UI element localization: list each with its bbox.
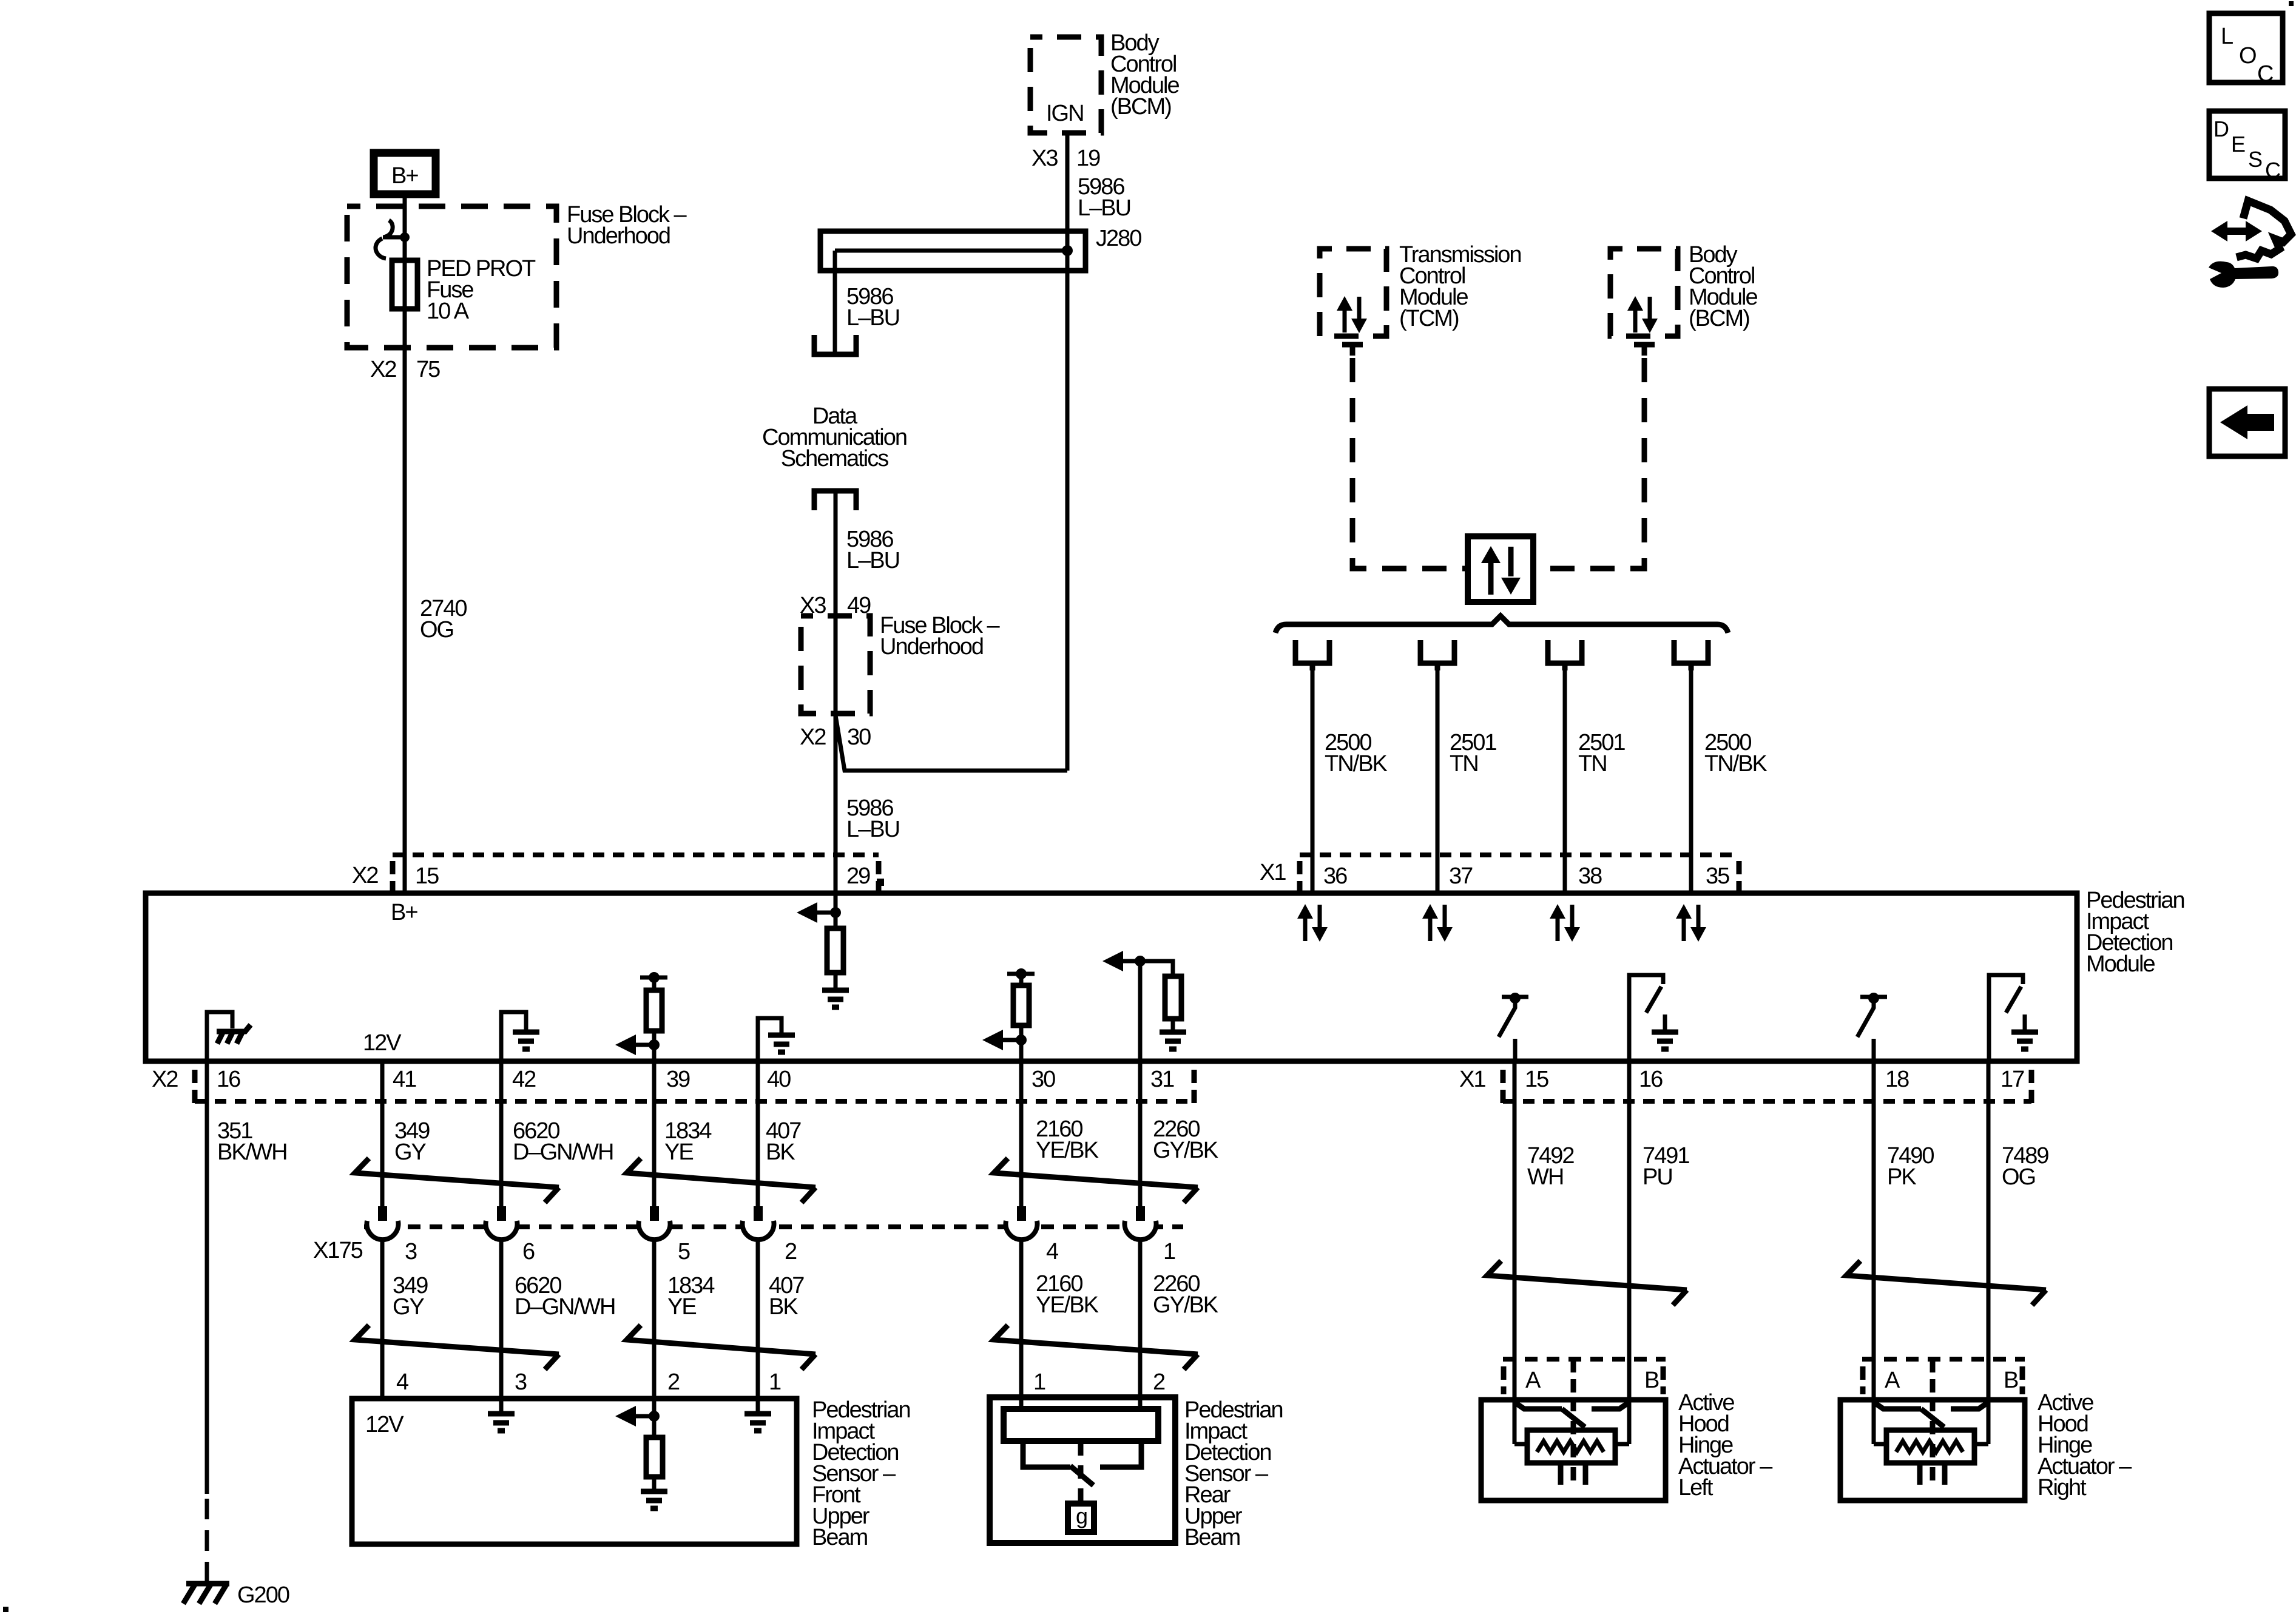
sensor front ground pin 1 — [745, 1399, 771, 1431]
wire B+ to fuse — [403, 198, 407, 262]
svg-text:E: E — [2231, 132, 2245, 157]
connector X1 bottom terminator — [1501, 1070, 1506, 1103]
wire fuse to module pin 15 — [403, 309, 407, 893]
wire label 349 GY lower — [393, 1273, 428, 1320]
actuator left name label — [1678, 1390, 1773, 1501]
svg-text:C: C — [2257, 61, 2273, 87]
svg-text:X175: X175 — [313, 1238, 363, 1263]
wire pin 30 to X175 pin 4 — [1019, 1061, 1024, 1207]
svg-text:B+: B+ — [391, 163, 418, 189]
wire label 5986 L-BU middle — [846, 527, 899, 573]
svg-text:1: 1 — [1163, 1239, 1175, 1264]
svg-text:4: 4 — [396, 1369, 409, 1395]
svg-text:2: 2 — [1153, 1369, 1165, 1395]
connector X1 bottom right terminator — [2029, 1070, 2034, 1103]
wire label 2500 TN/BK right — [1704, 730, 1768, 777]
BCM right name label — [1689, 242, 1757, 331]
svg-text:G200: G200 — [237, 1582, 289, 1608]
LOC hotspot icon — [2209, 13, 2283, 87]
svg-text:L–BU: L–BU — [846, 817, 899, 842]
module internal pullup at pin 30 — [982, 968, 1035, 1061]
connector X2 bottom right terminator — [1192, 1070, 1197, 1103]
module internal pulldown at pin 31 — [1102, 951, 1186, 1061]
svg-text:S: S — [2248, 147, 2262, 172]
actuator left connector left terminator — [1501, 1366, 1507, 1394]
back arrow icon — [2209, 389, 2285, 456]
connector X2 bottom dashed line — [195, 1099, 1194, 1104]
wire label 2500 TN/BK left — [1325, 730, 1388, 777]
DESC hotspot icon — [2209, 111, 2285, 183]
connector X2 top row right terminator — [876, 861, 882, 894]
module internal switch to ground at pin 16 — [1629, 975, 1678, 1061]
wire pin 39 to X175 pin 5 — [652, 1061, 657, 1207]
svg-text:OG: OG — [420, 617, 453, 643]
svg-text:D: D — [2213, 116, 2229, 141]
svg-text:4: 4 — [1046, 1239, 1059, 1264]
actuator left collar — [1514, 1402, 1629, 1427]
connector X2 bottom terminator — [192, 1070, 198, 1103]
wire pin 40 to X175 pin 2 — [756, 1061, 760, 1207]
wire label 5986 L-BU lower — [846, 795, 899, 842]
svg-text:15: 15 — [1525, 1067, 1548, 1092]
svg-text:Schematics: Schematics — [781, 446, 888, 471]
dashed serial data wire BCM to gateway — [1533, 358, 1644, 569]
brace over serial data pins — [1275, 616, 1728, 633]
splice pack J280 — [820, 226, 1141, 271]
connector X1 top row terminator — [1297, 861, 1303, 894]
svg-text:WH: WH — [1527, 1164, 1563, 1190]
svg-text:OG: OG — [2002, 1164, 2035, 1190]
svg-text:GY: GY — [393, 1294, 425, 1320]
svg-text:(BCM): (BCM) — [1110, 94, 1171, 120]
B+ power symbol — [374, 153, 436, 194]
active hood hinge actuator right box — [1840, 1400, 2025, 1501]
svg-text:40: 40 — [767, 1067, 791, 1092]
connector X2 top dashed line — [393, 852, 879, 857]
sensor front name label — [812, 1397, 910, 1550]
wire label 6620 D-GN/WH upper — [513, 1118, 613, 1165]
module internal switch at pin 15 — [1499, 993, 1528, 1061]
U connector pin 37 — [1420, 640, 1454, 670]
actuator left squib element — [1514, 1430, 1629, 1485]
svg-text:41: 41 — [393, 1067, 416, 1092]
rear sensor g-sensor box — [1068, 1504, 1094, 1532]
svg-text:16: 16 — [1639, 1067, 1663, 1092]
svg-text:Right: Right — [2038, 1475, 2087, 1501]
wire label 1834 YE lower — [667, 1273, 715, 1320]
wire label 5986 L-BU left — [846, 284, 899, 331]
tiny dot artifact — [877, 879, 884, 886]
fuse block underhood dashed box 2 — [801, 616, 870, 714]
svg-text:TN: TN — [1578, 751, 1607, 777]
actuator right connector dashed line — [1862, 1357, 2025, 1362]
svg-text:X1: X1 — [1260, 860, 1286, 885]
body control module (BCM) right dashed box — [1610, 249, 1678, 336]
svg-text:1: 1 — [769, 1369, 781, 1395]
wire pin 31 to X175 pin 1 — [1138, 1061, 1143, 1207]
fuse block label — [567, 202, 687, 249]
svg-text:YE: YE — [664, 1139, 693, 1165]
actuator right center dashed line — [1930, 1398, 1936, 1484]
pedestrian impact detection module label — [2086, 888, 2184, 977]
X175 terminal pin 1 — [1125, 1206, 1156, 1240]
actuator left connector right terminator — [1661, 1366, 1666, 1394]
TCM serial data arrows — [1337, 296, 1367, 333]
svg-text:L: L — [2221, 24, 2233, 49]
svg-text:18: 18 — [1885, 1067, 1909, 1092]
svg-text:29: 29 — [846, 863, 870, 889]
module internal pullup at pin 39 — [615, 972, 667, 1061]
J280 internal bus line — [835, 249, 1067, 253]
fuse clip bar — [383, 235, 405, 240]
connector X175 dashed line — [364, 1224, 1183, 1229]
connector X3 pin 49 labels — [800, 593, 871, 618]
wire pin 18 to actuator right A — [1872, 1061, 1876, 1444]
svg-text:36: 36 — [1323, 863, 1347, 889]
wire from bracket to fuse block — [834, 491, 838, 714]
BCM right serial data arrows — [1627, 296, 1658, 333]
actuator left center dashed line — [1571, 1398, 1576, 1484]
svg-text:BK/WH: BK/WH — [217, 1139, 287, 1165]
connector end view icon — [2209, 201, 2291, 288]
wire pin 17 to actuator right B — [1987, 1061, 1991, 1444]
wire serial data 2500 to pin 36 — [1311, 670, 1315, 893]
svg-text:A: A — [1885, 1368, 1900, 1393]
sensor front load pin 2 — [615, 1399, 667, 1508]
wire label 7489 OG — [2002, 1143, 2048, 1190]
module internal switch to ground at pin 17 — [1989, 975, 2038, 1061]
wire label 7490 PK — [1887, 1143, 1934, 1190]
rear sensor strip right leg — [1100, 1441, 1141, 1467]
svg-text:X3: X3 — [1032, 146, 1058, 171]
svg-text:15: 15 — [415, 863, 439, 889]
connector X3 pin 19 labels — [1032, 146, 1100, 171]
svg-text:10 A: 10 A — [427, 299, 470, 324]
svg-text:12V: 12V — [365, 1412, 404, 1437]
module serial data arrows pin 36 — [1297, 904, 1328, 942]
rear sensor switch blade — [1070, 1466, 1093, 1485]
wire label 2501 TN left — [1450, 730, 1496, 777]
active hood hinge actuator left box — [1481, 1400, 1666, 1501]
wire label 2260 GY/BK lower — [1153, 1271, 1218, 1318]
junction dot J280 — [1062, 245, 1073, 256]
connector X2 top row terminator — [390, 861, 396, 894]
wire X175 pin 6 to sensor pin 3 — [499, 1241, 504, 1399]
svg-text:16: 16 — [217, 1067, 240, 1092]
rear sensor element strip — [1004, 1409, 1158, 1441]
svg-text:Left: Left — [1678, 1475, 1714, 1501]
module serial data arrows pin 35 — [1676, 904, 1706, 942]
svg-text:YE/BK: YE/BK — [1036, 1138, 1099, 1163]
svg-text:3: 3 — [515, 1369, 527, 1395]
rear sensor name label — [1184, 1397, 1283, 1550]
svg-text:2: 2 — [785, 1239, 797, 1264]
dashed serial data wire TCM to gateway — [1352, 358, 1468, 569]
svg-text:17: 17 — [2001, 1067, 2024, 1092]
fuse PED PROT 10A — [392, 256, 536, 324]
svg-text:TN/BK: TN/BK — [1704, 751, 1768, 777]
wire pin 16 to actuator left B — [1627, 1061, 1632, 1444]
rear sensor dashed actuation line — [1078, 1442, 1084, 1502]
wire label 2160 YE/BK lower — [1036, 1271, 1099, 1318]
connector X2 pin 75 labels — [370, 357, 440, 382]
wire label 5986 L-BU upper — [1078, 174, 1130, 221]
svg-text:30: 30 — [847, 724, 871, 750]
svg-text:J280: J280 — [1096, 226, 1141, 251]
wire X175 pin 3 to sensor pin 4 — [380, 1241, 385, 1399]
rear sensor strip left leg — [1023, 1441, 1070, 1467]
twisted pair marker actuator left — [1487, 1261, 1687, 1305]
wire serial data 2501 to pin 37 — [1436, 670, 1440, 893]
module serial data arrows pin 37 — [1422, 904, 1453, 942]
wire 351 BK/WH to G200 — [205, 1061, 209, 1582]
svg-text:2: 2 — [667, 1369, 680, 1395]
twisted pair marker sensor rear pair — [994, 1325, 1198, 1369]
wire label 7492 WH — [1527, 1143, 1574, 1190]
U connector pin 38 — [1548, 640, 1582, 670]
actuator right connector center dash — [1930, 1359, 1936, 1394]
fuse block 2 label — [880, 613, 1001, 660]
wire pin 42 to X175 pin 6 — [499, 1061, 504, 1207]
svg-text:Underhood: Underhood — [880, 634, 983, 660]
connector X1 top dashed line — [1300, 852, 1739, 857]
svg-text:TN: TN — [1450, 751, 1478, 777]
svg-text:D–GN/WH: D–GN/WH — [515, 1294, 615, 1320]
page corner dot bottom left — [3, 1607, 8, 1612]
BCM name label — [1110, 30, 1179, 120]
svg-text:BK: BK — [766, 1139, 795, 1165]
svg-text:g: g — [1076, 1504, 1087, 1528]
wire label 351 BK/WH — [217, 1118, 287, 1165]
page corner dot top right — [2289, 1, 2294, 6]
wire fuse block 2 to module pin 29 — [834, 714, 838, 893]
TCM pin stub — [1342, 345, 1363, 356]
transmission control module (TCM) dashed box — [1320, 249, 1386, 336]
svg-text:1: 1 — [1033, 1369, 1045, 1395]
twisted pair marker sensor front pair 2 — [627, 1325, 815, 1369]
svg-text:L–BU: L–BU — [846, 548, 899, 573]
actuator right collar — [1874, 1402, 1988, 1427]
BCM right pin stub — [1634, 345, 1655, 356]
svg-text:39: 39 — [666, 1067, 690, 1092]
off-page bracket from data communication — [814, 491, 856, 510]
svg-text:5: 5 — [678, 1239, 690, 1264]
svg-text:38: 38 — [1578, 863, 1602, 889]
wire label 2260 GY/BK upper — [1153, 1116, 1218, 1163]
svg-text:L–BU: L–BU — [846, 305, 899, 331]
wire label 407 BK lower — [769, 1273, 804, 1320]
wire X175 pin 4 to rear sensor pin 1 — [1019, 1241, 1024, 1409]
actuator right connector right terminator — [2020, 1366, 2025, 1394]
module internal ground at pin 40 — [758, 1018, 795, 1061]
U connector pin 35 — [1674, 640, 1708, 670]
svg-text:Module: Module — [2086, 951, 2155, 977]
module internal load at pin 29 — [797, 893, 849, 1007]
wire pin 15 to actuator left A — [1513, 1061, 1517, 1444]
ground G200 — [183, 1582, 289, 1608]
svg-text:O: O — [2239, 43, 2256, 69]
svg-text:30: 30 — [1032, 1067, 1055, 1092]
wire J280 left leg down — [833, 251, 837, 354]
svg-text:(BCM): (BCM) — [1689, 306, 1749, 331]
module serial data arrows pin 38 — [1550, 904, 1580, 942]
wire label 2501 TN right — [1578, 730, 1625, 777]
svg-text:X2: X2 — [152, 1067, 178, 1092]
svg-text:X2: X2 — [370, 357, 396, 382]
svg-text:GY/BK: GY/BK — [1153, 1138, 1218, 1163]
X175 terminal pin 2 — [743, 1206, 774, 1240]
svg-text:6: 6 — [522, 1239, 535, 1264]
data communication schematics label — [762, 403, 907, 471]
wire label 2740 OG — [420, 596, 467, 643]
svg-text:42: 42 — [512, 1067, 536, 1092]
X175 terminal pin 4 — [1006, 1206, 1038, 1240]
wire label 407 BK upper — [766, 1118, 801, 1165]
pedestrian impact detection module box — [146, 893, 2077, 1061]
svg-text:Beam: Beam — [812, 1525, 868, 1550]
actuator right connector left terminator — [1860, 1366, 1866, 1394]
svg-text:GY/BK: GY/BK — [1153, 1292, 1218, 1318]
pedestrian impact detection sensor rear upper beam box — [990, 1397, 1175, 1543]
svg-text:PK: PK — [1887, 1164, 1916, 1190]
svg-text:31: 31 — [1150, 1067, 1174, 1092]
twisted pair marker wires 30-31 — [994, 1158, 1198, 1203]
connector X2 pin 30 labels — [800, 724, 871, 750]
wire X175 pin 1 to rear sensor pin 2 — [1138, 1241, 1143, 1409]
svg-text:B+: B+ — [391, 900, 417, 925]
svg-text:A: A — [1525, 1368, 1541, 1393]
svg-text:IGN: IGN — [1046, 101, 1084, 126]
twisted pair marker actuator right — [1846, 1261, 2046, 1305]
svg-text:PU: PU — [1643, 1164, 1672, 1190]
wire serial data 2500 to pin 35 — [1689, 670, 1693, 893]
sensor front ground pin 3 — [488, 1399, 515, 1431]
svg-text:35: 35 — [1706, 863, 1729, 889]
svg-text:37: 37 — [1449, 863, 1473, 889]
X175 terminal pin 6 — [486, 1206, 518, 1240]
module internal chassis ground at pin 16 — [207, 1012, 251, 1061]
svg-text:Beam: Beam — [1184, 1525, 1240, 1550]
actuator left connector center dash — [1571, 1359, 1576, 1394]
TCM name label — [1399, 242, 1521, 331]
off-page bracket to data communication — [814, 335, 856, 354]
svg-text:C: C — [2265, 158, 2280, 183]
svg-text:B: B — [1644, 1368, 1659, 1393]
wire X175 pin 2 to sensor pin 1 — [756, 1241, 760, 1399]
svg-text:YE/BK: YE/BK — [1036, 1292, 1099, 1318]
module internal switch at pin 18 — [1857, 993, 1887, 1061]
svg-text:GY: GY — [394, 1139, 427, 1165]
svg-text:BK: BK — [769, 1294, 798, 1320]
wire label 7491 PU — [1643, 1143, 1689, 1190]
svg-text:D–GN/WH: D–GN/WH — [513, 1139, 613, 1165]
U connector pin 36 — [1295, 640, 1329, 670]
fuse block underhood dashed box — [347, 206, 556, 348]
svg-text:19: 19 — [1076, 146, 1100, 171]
module internal ground at pin 42 — [501, 1012, 539, 1061]
junction dot at fuse top — [400, 232, 410, 242]
connector X1 bottom dashed line — [1503, 1099, 2031, 1104]
wire IGN 5986 L-BU down from BCM — [1065, 133, 1070, 771]
svg-text:3: 3 — [405, 1239, 417, 1264]
svg-text:B: B — [2004, 1368, 2018, 1393]
twisted pair marker wires 39-40 — [627, 1158, 815, 1203]
svg-text:X2: X2 — [352, 863, 378, 888]
pedestrian impact detection sensor front upper beam box — [352, 1399, 797, 1544]
wire label 2160 YE/BK upper — [1036, 1116, 1099, 1163]
wire label 6620 D-GN/WH lower — [515, 1273, 615, 1320]
svg-text:TN/BK: TN/BK — [1325, 751, 1388, 777]
wire pin 41 to X175 pin 3 — [380, 1061, 385, 1207]
wire serial data 2501 to pin 38 — [1563, 670, 1567, 893]
svg-text:X2: X2 — [800, 724, 826, 750]
actuator right squib element — [1874, 1430, 1988, 1485]
twisted pair marker wires 41-42 — [355, 1158, 559, 1203]
svg-text:Underhood: Underhood — [567, 223, 670, 249]
connector X1 top right terminator — [1737, 861, 1742, 894]
wire label 349 GY upper — [394, 1118, 430, 1165]
svg-text:YE: YE — [667, 1294, 696, 1320]
fuse clip symbol — [376, 220, 393, 258]
svg-text:L–BU: L–BU — [1078, 195, 1130, 221]
X175 terminal pin 3 — [367, 1206, 399, 1240]
actuator right name label — [2038, 1390, 2132, 1501]
svg-text:X1: X1 — [1459, 1067, 1485, 1092]
twisted pair marker sensor front pair 1 — [355, 1325, 559, 1369]
wire label 1834 YE upper — [664, 1118, 712, 1165]
wire diagonal joining J280 leg — [836, 715, 1067, 771]
actuator left connector dashed line — [1503, 1357, 1666, 1362]
body control module (BCM) top dashed box — [1030, 37, 1101, 133]
svg-text:12V: 12V — [363, 1030, 402, 1056]
wire X175 pin 5 to sensor pin 2 — [652, 1241, 657, 1399]
svg-text:(TCM): (TCM) — [1399, 306, 1459, 331]
X175 terminal pin 5 — [639, 1206, 670, 1240]
svg-text:75: 75 — [416, 357, 440, 382]
serial data gateway box — [1468, 536, 1533, 602]
